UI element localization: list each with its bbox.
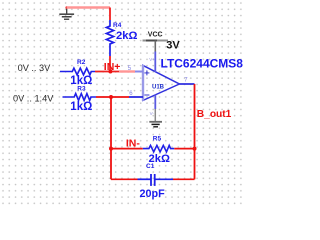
- svg-text:R3: R3: [77, 86, 86, 93]
- junction dot feedback node: [109, 95, 113, 99]
- wire R4 top vertical: [109, 8, 111, 21]
- resistor R5 (horizontal): [143, 145, 175, 151]
- svg-text:0V .. 3V: 0V .. 3V: [18, 63, 52, 73]
- plus sign: [144, 70, 149, 75]
- pin output lead: [179, 83, 194, 85]
- svg-text:LTC6244CMS8: LTC6244CMS8: [161, 57, 244, 71]
- wire R4 bottom to IN+ node: [109, 56, 111, 72]
- wire C1 left (red): [111, 178, 138, 180]
- ground GND1 (top left): [59, 8, 74, 20]
- wire R5 to output rail: [174, 148, 194, 150]
- junction dot IN- node: [109, 147, 113, 151]
- svg-text:R4: R4: [113, 22, 122, 29]
- svg-text:U1B: U1B: [152, 85, 165, 91]
- svg-text:VCC: VCC: [148, 31, 163, 38]
- svg-text:3V: 3V: [166, 40, 180, 52]
- node dot at ground: [65, 6, 68, 9]
- wire output rail (vertical): [194, 84, 196, 179]
- junction dot IN+: [108, 70, 112, 74]
- svg-text:R2: R2: [77, 59, 86, 66]
- pin V- lead: [154, 95, 156, 109]
- wire C1 right lead (blue): [155, 178, 173, 180]
- svg-text:IN+: IN+: [104, 61, 121, 73]
- svg-text:V+: V+: [149, 57, 155, 62]
- svg-text:0V .. 1.4V: 0V .. 1.4V: [13, 93, 54, 103]
- pin IN- lead: [129, 96, 143, 98]
- ground GND2 (below op-amp): [149, 109, 162, 127]
- svg-text:V-: V-: [150, 111, 155, 116]
- wire feedback left rail (vertical): [110, 97, 112, 179]
- svg-text:2kΩ: 2kΩ: [116, 30, 137, 42]
- resistor R3 (horizontal): [63, 94, 97, 101]
- wire C1 left lead (blue): [138, 178, 152, 180]
- pin IN+ lead: [135, 71, 143, 73]
- minus sign: [144, 94, 149, 96]
- wire R2 to IN+ node: [95, 71, 119, 73]
- svg-text:1kΩ: 1kΩ: [70, 101, 92, 113]
- resistor R2 (horizontal): [60, 68, 95, 75]
- capacitor C1: [151, 174, 155, 186]
- power VCC symbol: [143, 41, 169, 52]
- junction dot output/R5: [193, 147, 197, 151]
- svg-text:R5: R5: [153, 136, 162, 143]
- pin V+ lead: [154, 52, 156, 73]
- op-amp U1B triangle: [143, 65, 179, 101]
- wire R3 to minus input: [96, 96, 129, 98]
- resistor R4 (vertical): [106, 20, 113, 56]
- wire IN+ node to op-amp (pale): [119, 70, 135, 72]
- svg-text:20pF: 20pF: [140, 188, 166, 200]
- wire IN- node to R5: [111, 148, 143, 150]
- svg-text:B_out1: B_out1: [197, 109, 232, 120]
- wire ground to R4 top (horizontal): [67, 6, 110, 9]
- wire C1 right (red): [173, 178, 195, 180]
- svg-text:C1: C1: [146, 163, 155, 170]
